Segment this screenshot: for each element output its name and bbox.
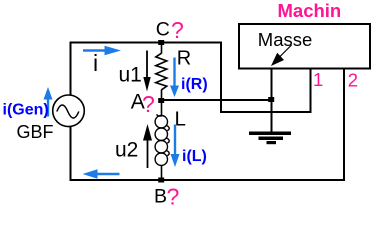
voltage arrow u2 (black, up) bbox=[147, 140, 149, 168]
resistor R zigzag bbox=[156, 53, 167, 90]
svg-text:?: ? bbox=[171, 17, 184, 43]
ground branch junction dot bbox=[268, 97, 274, 102]
wire horizontal y112 from x221 to pin1 bbox=[220, 111, 312, 113]
node B junction dot bbox=[158, 178, 164, 183]
wire ground vertical from box bottom through junction to ground bbox=[271, 69, 273, 133]
svg-text:i(R): i(R) bbox=[181, 76, 208, 93]
current arrow bottom (blue, left) bbox=[96, 173, 120, 175]
current arrow i(Gen) (blue, up) bbox=[47, 99, 49, 117]
svg-text:Masse: Masse bbox=[258, 29, 313, 50]
ground symbol bar 2 bbox=[259, 137, 284, 141]
wire top horizontal from generator to right corner bbox=[70, 42, 223, 44]
node A junction dot bbox=[158, 98, 164, 103]
wire pin2 vertical from box bottom to bottom wire bbox=[343, 69, 345, 181]
inductor L coil loops bbox=[155, 114, 169, 165]
generator sine wave bbox=[57, 105, 79, 118]
current arrow i top (blue, right) bbox=[83, 49, 106, 51]
Masse pointer arrow line bbox=[279, 45, 292, 58]
svg-text:u1: u1 bbox=[119, 64, 142, 87]
wire right vertical from top wire down to y112 bbox=[220, 42, 222, 114]
current arrow i(L) (blue, down) bbox=[174, 125, 176, 155]
wire node A horizontal to ground branch bbox=[161, 99, 273, 101]
wire stub node A to inductor bbox=[161, 100, 163, 116]
wire pin1 vertical from box bottom to y112 bbox=[310, 69, 312, 113]
svg-text:i(L): i(L) bbox=[182, 148, 207, 165]
svg-text:i(Gen): i(Gen) bbox=[3, 102, 49, 119]
svg-text:1: 1 bbox=[313, 69, 323, 90]
Masse pointer arrowhead bbox=[271, 53, 284, 66]
wire stub inductor to node B bbox=[161, 165, 163, 180]
svg-text:?: ? bbox=[167, 184, 180, 206]
svg-text:B: B bbox=[154, 186, 167, 206]
svg-text:i: i bbox=[93, 50, 98, 76]
ground symbol bar 1 bbox=[249, 132, 291, 136]
svg-text:u2: u2 bbox=[115, 138, 138, 161]
voltage arrow u1 (black, down) bbox=[146, 51, 148, 78]
wire main branch stub C to resistor bbox=[161, 42, 163, 54]
current arrow i(R) (blue, down) bbox=[173, 58, 175, 87]
svg-text:C: C bbox=[156, 19, 170, 41]
wire bottom horizontal from generator to pin2 corner bbox=[70, 179, 346, 181]
svg-text:R: R bbox=[177, 48, 191, 70]
ground symbol bar 3 bbox=[267, 141, 277, 144]
Masse box bbox=[239, 24, 370, 69]
svg-text:GBF: GBF bbox=[17, 122, 54, 142]
node C junction dot bbox=[158, 40, 164, 45]
svg-text:L: L bbox=[175, 108, 186, 131]
wire left vertical lower (generator bottom to corner) bbox=[70, 127, 72, 182]
svg-text:2: 2 bbox=[348, 70, 358, 91]
wire stub resistor to node A bbox=[161, 90, 163, 101]
svg-text:Machin: Machin bbox=[278, 0, 342, 21]
wire left vertical upper (corner to generator top) bbox=[70, 42, 72, 96]
svg-text:?: ? bbox=[142, 91, 155, 117]
generator GBF circle bbox=[53, 95, 85, 127]
